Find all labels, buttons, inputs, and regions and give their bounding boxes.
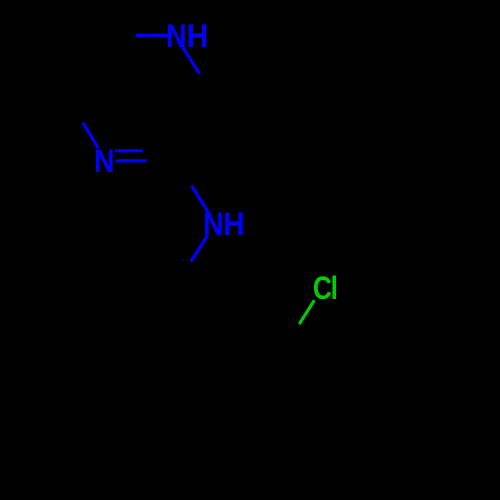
atom label NH (ring N1), top [166,18,208,54]
atom label N (ring N3), left [94,145,115,180]
svg-text:N: N [94,145,115,180]
svg-text:C: C [313,272,332,307]
svg-text:N: N [166,20,187,55]
atom label Cl (chlorine substituent) [313,272,338,307]
atom label NH (exocyclic amine), middle [203,206,245,242]
wire: bond C6-N1 half (N side), horizontal [136,34,168,37]
svg-text:l: l [331,272,338,307]
wire: bond C(aryl)-Cl half (Cl side), green diagonal [299,300,314,324]
wire: bond N(H)-CH2 half (N side), diagonal leaving middle NH [191,236,208,262]
wire: double bond N3=C inner line (N side) [115,149,142,152]
wire: bond C-N(H) half (N side), diagonal into middle NH [192,186,211,217]
svg-text:H: H [223,206,244,242]
svg-text:N: N [203,208,224,243]
svg-text:H: H [187,18,208,54]
wire: bond N1-C2 half (N side), diagonal down-right from top NH [183,48,200,74]
wire: bond C4-N3 half (N side), diagonal into ring N [83,123,99,149]
wire: double bond N3=C main line (N side) [115,159,146,162]
